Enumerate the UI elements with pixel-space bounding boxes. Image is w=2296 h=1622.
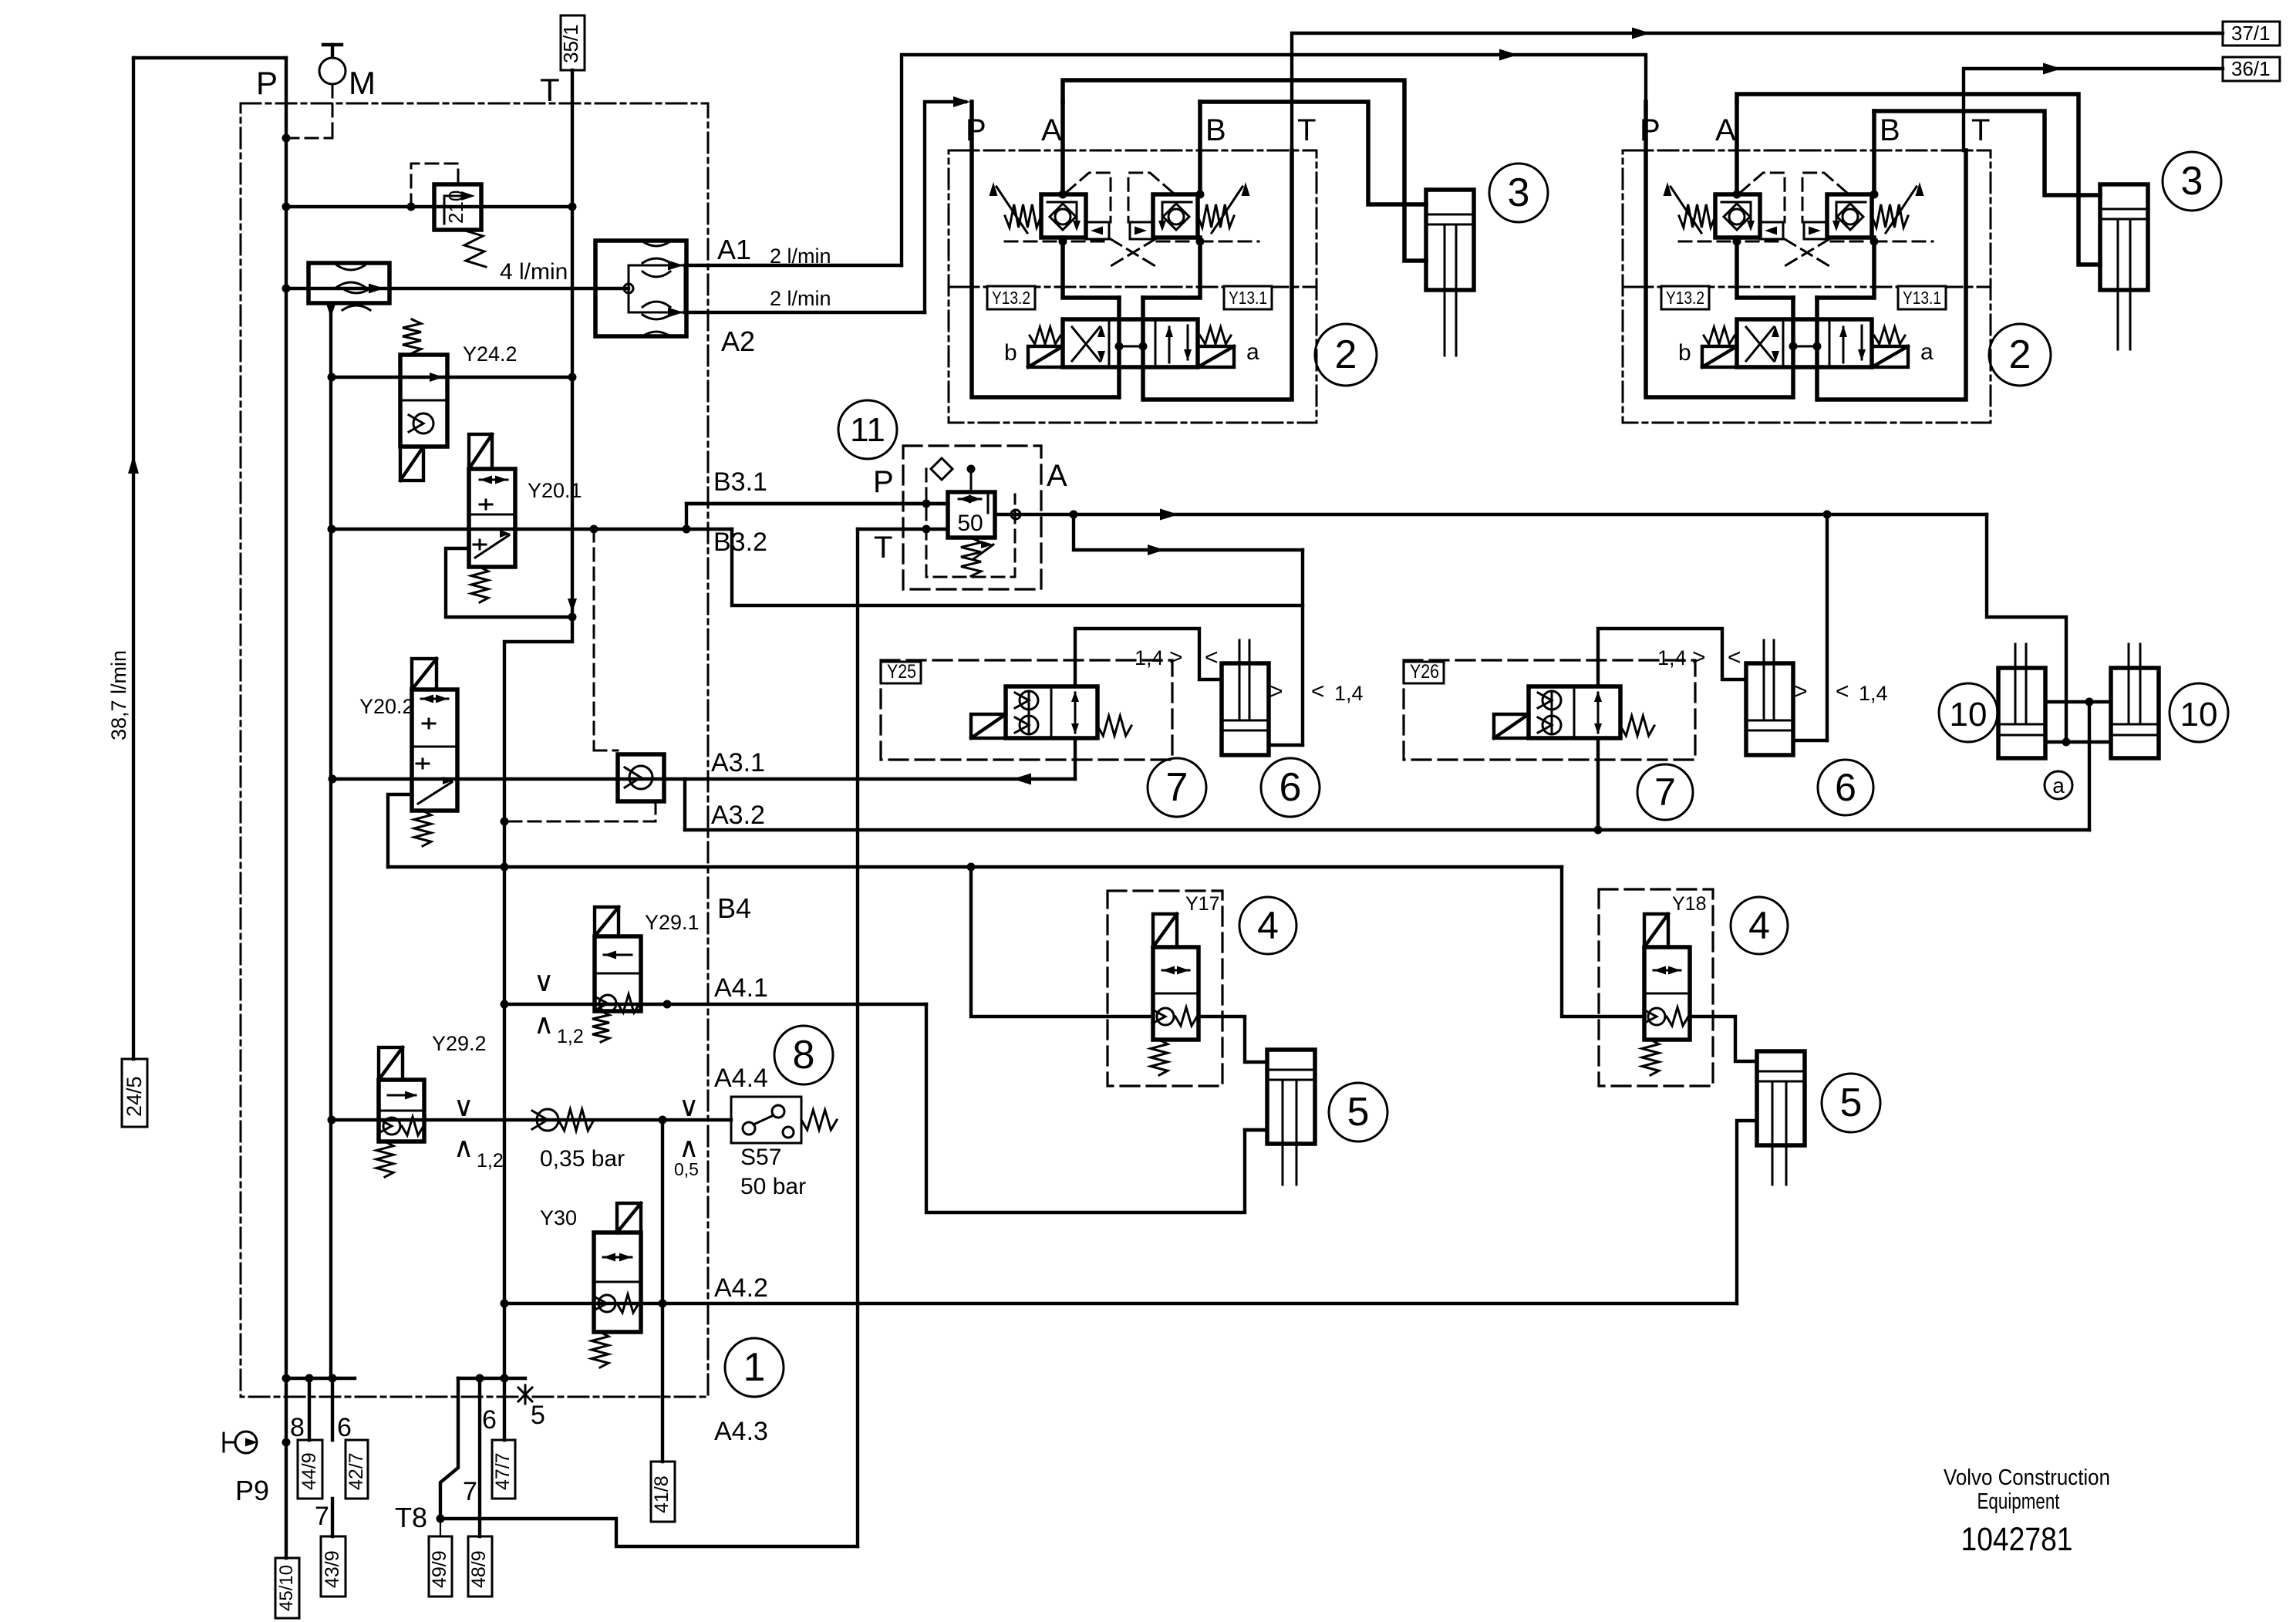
counterbalance left check (right) bbox=[1729, 209, 1745, 224]
wire cylinder 6 bottom port bbox=[1269, 744, 1303, 747]
pilot cross dash (right) bbox=[1785, 239, 1829, 266]
counterbalance left check (left) bbox=[1055, 209, 1070, 224]
svg-text:50 bar: 50 bar bbox=[740, 1174, 806, 1199]
Y25 dashed enclosure bbox=[881, 660, 1172, 760]
flow divider 2 outer body bbox=[595, 241, 686, 336]
valve Y29.2 check spring bbox=[383, 1118, 400, 1135]
svg-text:10: 10 bbox=[2180, 696, 2218, 733]
wire T left group to 37/1 bbox=[1292, 33, 2223, 150]
wire drop 42/7 bbox=[331, 1378, 334, 1440]
svg-text:1,2: 1,2 bbox=[557, 1026, 584, 1047]
svg-text:Y24.2: Y24.2 bbox=[463, 342, 518, 366]
valve Y29.1 body bbox=[595, 936, 641, 1011]
node box 43/9 bbox=[321, 1536, 346, 1597]
svg-text:44/9: 44/9 bbox=[298, 1452, 320, 1490]
wire Y26 riser down bbox=[1596, 738, 1600, 830]
wire 4 l/min line bbox=[286, 287, 629, 290]
svg-text:42/7: 42/7 bbox=[346, 1452, 367, 1490]
svg-text:A: A bbox=[1041, 113, 1062, 147]
item circle 10 left bbox=[1939, 683, 1998, 742]
pilot dash check bottom bbox=[504, 801, 656, 821]
svg-text:Y20.2: Y20.2 bbox=[359, 695, 414, 718]
wire A output line bbox=[995, 513, 1987, 516]
svg-text:45/10: 45/10 bbox=[276, 1565, 297, 1611]
valve Y26 solenoid bbox=[1494, 714, 1529, 738]
valve Y17 arrows bbox=[1162, 966, 1175, 975]
svg-text:T8: T8 bbox=[395, 1502, 427, 1533]
Y17 dashed enclosure bbox=[1108, 891, 1222, 1086]
valve Y17 body bbox=[1153, 947, 1199, 1040]
counterbalance right springs (right) bbox=[1872, 204, 1908, 228]
counterbalance left pilot box (right) bbox=[1760, 222, 1783, 239]
svg-text:T: T bbox=[1971, 113, 1990, 147]
wire B4 drop to Y18 bbox=[1562, 867, 1644, 1017]
wire T to drain jog bbox=[504, 617, 572, 1378]
valve Y30 check spring bbox=[598, 1295, 615, 1312]
counterbalance left pilot box (left) bbox=[1086, 222, 1109, 239]
wire A2 line bbox=[685, 311, 925, 314]
svg-text:Y29.1: Y29.1 bbox=[645, 911, 700, 934]
label Y13.1 box (right) bbox=[1898, 286, 1946, 309]
svg-text:Y20.1: Y20.1 bbox=[528, 479, 582, 502]
label Y13.1 box (left) bbox=[1224, 286, 1272, 309]
cylinder 6 body bbox=[1222, 663, 1269, 755]
wire T right group to 36/1 bbox=[1964, 69, 2223, 150]
svg-text:B: B bbox=[1205, 113, 1226, 147]
relief valve 210 pilot dash bbox=[411, 164, 458, 207]
wire left collector bbox=[286, 1377, 355, 1380]
node box 47/7 bbox=[492, 1440, 515, 1499]
valve Y24.2 check bbox=[413, 413, 433, 433]
pilot cross dash (left) bbox=[1111, 239, 1155, 266]
solenoid a (left) bbox=[1198, 346, 1234, 367]
wire group B mid (right) bbox=[1817, 238, 1874, 298]
item circle 4 right bbox=[1731, 897, 1788, 954]
svg-text:47/7: 47/7 bbox=[492, 1452, 514, 1490]
svg-text:10: 10 bbox=[1950, 696, 1988, 733]
node T8 dot bbox=[437, 1515, 445, 1523]
item circle 3 left bbox=[1489, 164, 1548, 222]
svg-text:a: a bbox=[1920, 339, 1934, 365]
svg-text:37/1: 37/1 bbox=[2231, 22, 2271, 45]
valve Y17 spring bbox=[1151, 1040, 1168, 1075]
svg-text:Y26: Y26 bbox=[1410, 661, 1439, 683]
item circle 6 right bbox=[1818, 760, 1873, 815]
svg-text:Y30: Y30 bbox=[540, 1206, 577, 1229]
item circle 2 (right) bbox=[1989, 324, 2051, 386]
svg-text:Y13.2: Y13.2 bbox=[1666, 288, 1704, 308]
label Y26 box bbox=[1404, 662, 1444, 683]
pilot dash line B3.2 to check bbox=[593, 529, 595, 750]
wire A2 to P left group bbox=[925, 102, 966, 312]
cylinder 10 left bbox=[1998, 668, 2045, 758]
svg-text:<: < bbox=[1728, 645, 1741, 670]
svg-text:6: 6 bbox=[1835, 766, 1856, 809]
manifold block 1 dash-dot border bbox=[241, 103, 708, 1397]
valve Y20.1 arrows bbox=[480, 476, 492, 484]
svg-text:41/8: 41/8 bbox=[651, 1475, 673, 1513]
valve Y30 arrows bbox=[603, 1253, 615, 1262]
label Y13.2 box (right) bbox=[1661, 286, 1709, 309]
valve Y20.2 solenoid bbox=[412, 659, 437, 690]
svg-text:a: a bbox=[2052, 774, 2065, 798]
valve Y20.1 spring bbox=[471, 567, 488, 602]
svg-text:50: 50 bbox=[957, 511, 983, 536]
wire A3.1 line bbox=[332, 777, 1075, 781]
svg-text:7: 7 bbox=[1166, 765, 1188, 810]
wire pump supply riser 38,7 l/min bbox=[132, 58, 135, 1059]
item circle a bbox=[2045, 771, 2072, 799]
wire B3.1 line bbox=[686, 504, 948, 529]
svg-text:P: P bbox=[256, 65, 278, 101]
wire A to cylinder 3 right bbox=[1737, 94, 2100, 265]
wire main pressure line top bbox=[133, 56, 286, 59]
counterbalance right internal (right) bbox=[1836, 202, 1866, 224]
svg-text:2 l/min: 2 l/min bbox=[770, 287, 831, 310]
valve right section arrows (left) bbox=[1168, 327, 1171, 363]
svg-text:A: A bbox=[1715, 113, 1736, 147]
wire Y17 out to cylinder 5 bbox=[1199, 1017, 1267, 1062]
svg-text:3: 3 bbox=[2181, 159, 2203, 204]
wire Y26 riser up bbox=[1598, 629, 1746, 686]
wire cylinder 6 riser bbox=[1301, 550, 1304, 745]
wire mid collector bbox=[458, 1377, 525, 1380]
valve Y20.2 spring bbox=[414, 811, 431, 846]
svg-text:a: a bbox=[1246, 339, 1259, 365]
wire T8 return long bbox=[440, 1519, 858, 1546]
solenoid b (right) bbox=[1702, 346, 1737, 367]
svg-text:8: 8 bbox=[290, 1413, 305, 1442]
svg-text:A2: A2 bbox=[721, 325, 755, 357]
wire A feed to item 10 bbox=[1987, 514, 2066, 742]
svg-text:4: 4 bbox=[1257, 904, 1279, 947]
flow divider throttles bbox=[337, 265, 365, 270]
valve Y17 solenoid bbox=[1153, 914, 1177, 947]
svg-text:>: > bbox=[1692, 645, 1706, 670]
wire T return vertical bbox=[571, 70, 574, 617]
counterbalance valve left body (right) bbox=[1715, 194, 1760, 238]
valve Y24.2 body bbox=[400, 355, 447, 447]
valve Y29.1 solenoid bbox=[595, 907, 619, 936]
wire Y25 riser down bbox=[1074, 738, 1077, 779]
valve Y29.2 arrow bbox=[388, 1094, 416, 1097]
svg-text:38,7 l/min: 38,7 l/min bbox=[107, 650, 130, 740]
valve Y18 solenoid bbox=[1644, 914, 1668, 947]
svg-text:P: P bbox=[873, 465, 894, 499]
svg-text:Y13.1: Y13.1 bbox=[1229, 288, 1267, 308]
valve Y29.2 solenoid bbox=[379, 1047, 403, 1080]
valve Y20.1 solenoid bbox=[469, 434, 492, 469]
cylinder 3 left body bbox=[1426, 190, 1474, 290]
wire drop 48/9 bbox=[478, 1378, 481, 1536]
svg-text:0,35 bar: 0,35 bar bbox=[540, 1146, 625, 1172]
item 11 outer box bbox=[903, 446, 1041, 589]
group internal dash divider (left) bbox=[949, 286, 1317, 288]
wire item11 P line bbox=[686, 502, 948, 505]
reducing valve 50 spring bbox=[961, 538, 981, 576]
svg-text:1,4: 1,4 bbox=[1657, 646, 1687, 669]
svg-text:7: 7 bbox=[1654, 771, 1676, 814]
wire group T vertical (right) bbox=[1819, 150, 1966, 400]
solenoid a (right) bbox=[1872, 346, 1908, 367]
valve Y26 flowpath bbox=[1597, 693, 1600, 733]
wire valve stem T (right) bbox=[1815, 298, 1819, 400]
node box 42/7 bbox=[346, 1440, 368, 1499]
svg-text:11: 11 bbox=[850, 411, 885, 449]
counterbalance right springs (left) bbox=[1198, 204, 1234, 228]
counterbalance right check (right) bbox=[1843, 209, 1858, 224]
valve Y25 checks bbox=[1020, 691, 1038, 710]
wire item10 upper link bbox=[2045, 700, 2111, 703]
pump source P9 bbox=[235, 1431, 257, 1453]
valve Y25 solenoid bbox=[971, 714, 1006, 738]
valve center section (right) bbox=[1789, 342, 1798, 351]
valve Y20.2 arrows bbox=[421, 695, 433, 703]
svg-text:36/1: 36/1 bbox=[2231, 57, 2271, 80]
node box 36/1 bbox=[2223, 57, 2280, 81]
counterbalance right pilot box (left) bbox=[1130, 222, 1153, 239]
wire drop 44/9 bbox=[308, 1378, 311, 1440]
svg-text:∨: ∨ bbox=[534, 966, 554, 997]
solenoid a spring (left) bbox=[1200, 327, 1231, 344]
item circle 10 right bbox=[2170, 683, 2228, 742]
wire group A line (left) bbox=[1060, 102, 1065, 194]
valve Y25 spring bbox=[1097, 716, 1131, 736]
valve Y24.2 spring bbox=[403, 319, 421, 353]
valve right section arrows (right) bbox=[1843, 327, 1845, 363]
svg-text:A4.4: A4.4 bbox=[714, 1064, 768, 1093]
svg-text:5: 5 bbox=[1840, 1081, 1863, 1125]
group internal dash divider (right) bbox=[1623, 286, 1991, 288]
svg-text:48/9: 48/9 bbox=[468, 1550, 490, 1588]
wire relief line bbox=[286, 205, 572, 208]
wire item11 T line bbox=[858, 528, 948, 531]
valve Y17 check spring bbox=[1157, 1008, 1174, 1025]
svg-text:P: P bbox=[966, 113, 986, 147]
svg-text:6: 6 bbox=[1279, 765, 1302, 810]
cylinder 6 right body bbox=[1746, 663, 1793, 755]
svg-text:A4.3: A4.3 bbox=[714, 1417, 768, 1446]
counterbalance right check (left) bbox=[1168, 209, 1184, 224]
Y26 dashed enclosure bbox=[1404, 660, 1695, 760]
svg-text:Equipment: Equipment bbox=[1977, 1489, 2060, 1514]
item circle 3 right bbox=[2163, 152, 2221, 211]
svg-text:Y13.2: Y13.2 bbox=[992, 288, 1030, 308]
svg-text:A4.2: A4.2 bbox=[714, 1273, 768, 1303]
svg-text:24/5: 24/5 bbox=[123, 1076, 146, 1117]
wire A4.1 to cylinder 5 bbox=[926, 1004, 1267, 1212]
counterbalance left internal (left) bbox=[1047, 202, 1077, 224]
wire B to cylinder 3 left bbox=[1200, 102, 1426, 204]
svg-text:<: < bbox=[1836, 679, 1849, 704]
wire Y25 riser up bbox=[1075, 629, 1222, 686]
wire M dashed connection bbox=[332, 85, 334, 138]
valve Y20.2 body bbox=[412, 690, 457, 811]
svg-text:7: 7 bbox=[463, 1477, 477, 1506]
svg-text:2 l/min: 2 l/min bbox=[770, 244, 831, 268]
svg-text:1: 1 bbox=[743, 1345, 766, 1390]
group 2 dash-dot enclosure (right) bbox=[1623, 150, 1991, 423]
svg-text:A3.1: A3.1 bbox=[711, 748, 765, 777]
wire B4 line bbox=[388, 865, 1562, 868]
counterbalance right pilot dash (left) bbox=[1128, 173, 1173, 222]
wire B3.2 step line bbox=[732, 529, 1303, 605]
wire valve stem T (left) bbox=[1141, 298, 1145, 400]
valve Y29.1 spring bbox=[592, 1011, 609, 1042]
svg-text:>: > bbox=[1794, 679, 1808, 704]
counterbalance right pilot dash (right) bbox=[1802, 173, 1847, 222]
wire group B mid (left) bbox=[1143, 238, 1200, 298]
wire drop 47/7 bbox=[503, 1378, 506, 1440]
counterbalance left springs (left) bbox=[1005, 204, 1041, 228]
wire divider branch down bbox=[329, 303, 332, 1378]
svg-text:1,4: 1,4 bbox=[1135, 646, 1164, 669]
item circle 8 bbox=[774, 1026, 833, 1084]
wire group A line (right) bbox=[1735, 102, 1739, 194]
wire T8 to 49/9 bbox=[440, 1519, 441, 1536]
valve center section (left) bbox=[1115, 342, 1124, 351]
svg-text:Y25: Y25 bbox=[887, 661, 916, 683]
wire S57 branch bbox=[661, 1120, 664, 1462]
counterbalance valve right body (left) bbox=[1153, 194, 1198, 238]
wire Y20.1 bypass loop bbox=[446, 548, 572, 617]
svg-text:<: < bbox=[1311, 679, 1325, 704]
wire A to cylinder 3 left bbox=[1063, 80, 1426, 261]
label Y13.2 box (left) bbox=[987, 286, 1035, 309]
wire valve stem P (right) bbox=[1791, 298, 1795, 397]
wire group P vertical (left) bbox=[972, 102, 1118, 397]
pilot dash bottom (right) bbox=[1679, 241, 1737, 243]
valve Y25 flowpath bbox=[1074, 693, 1077, 733]
wire item10 lower link bbox=[2045, 740, 2111, 744]
pilot dash bottom (left) bbox=[1005, 241, 1063, 243]
valve Y20.1 body bbox=[469, 469, 515, 567]
svg-text:A: A bbox=[1047, 459, 1067, 493]
svg-text:5: 5 bbox=[1347, 1090, 1370, 1135]
relief valve 210 body bbox=[434, 184, 481, 230]
svg-text:A4.1: A4.1 bbox=[714, 973, 768, 1003]
node dots counterbalance (left) bbox=[1059, 191, 1067, 199]
svg-text:B3.2: B3.2 bbox=[713, 528, 767, 557]
valve Y29.1 arrow bbox=[604, 954, 632, 956]
valve Y26 body bbox=[1529, 686, 1620, 738]
wire cylinder 5R bottom to A4.2 bbox=[1737, 1121, 1757, 1303]
item circle 4 left bbox=[1239, 897, 1296, 954]
solenoid b spring (left) bbox=[1030, 327, 1060, 344]
valve Y30 body bbox=[594, 1233, 641, 1332]
wire A4.4 line bbox=[332, 1118, 731, 1121]
wire Y20.2 bypass to B4 bbox=[388, 794, 412, 867]
svg-text:P: P bbox=[1640, 113, 1660, 147]
item circle 5 right bbox=[1822, 1074, 1880, 1132]
item 11 circle bbox=[838, 400, 897, 459]
valve X section arrows (right) bbox=[1746, 327, 1774, 361]
wire arrow up on supply riser bbox=[128, 455, 139, 474]
node box 49/9 bbox=[429, 1536, 452, 1597]
valve Y26 spring bbox=[1620, 716, 1654, 736]
svg-text:T: T bbox=[1297, 113, 1316, 147]
wire P to 45/10 bbox=[285, 1378, 288, 1558]
svg-text:6: 6 bbox=[337, 1413, 352, 1442]
svg-text:∧: ∧ bbox=[453, 1131, 474, 1163]
svg-text:S57: S57 bbox=[740, 1145, 781, 1170]
valve Y26 checks bbox=[1542, 691, 1561, 710]
wire cylinder 6R bottom port bbox=[1793, 739, 1827, 742]
wire T8 jog bbox=[440, 1378, 458, 1519]
counterbalance right pilot box (right) bbox=[1804, 222, 1827, 239]
svg-text:B3.1: B3.1 bbox=[713, 467, 767, 497]
svg-text:1,2: 1,2 bbox=[477, 1150, 504, 1172]
svg-text:35/1: 35/1 bbox=[559, 24, 582, 63]
svg-text:∨: ∨ bbox=[679, 1091, 699, 1122]
wire item10 drain riser bbox=[2088, 702, 2091, 830]
wire A4.1 line bbox=[504, 1003, 926, 1006]
solenoid b spring (right) bbox=[1704, 327, 1735, 344]
check 0,35 bar bbox=[537, 1109, 558, 1131]
valve Y24.2 flow arrow bbox=[430, 373, 443, 382]
svg-text:Y29.2: Y29.2 bbox=[432, 1032, 487, 1055]
wire Y24.2 line bbox=[332, 376, 572, 379]
wire A4.2 line bbox=[504, 1302, 1737, 1305]
svg-text:1,4: 1,4 bbox=[1334, 682, 1364, 705]
node box 37/1 bbox=[2223, 22, 2280, 46]
wire group B line (right) bbox=[1872, 111, 1876, 194]
wire A3.2 step bbox=[683, 779, 686, 830]
svg-text:4 l/min: 4 l/min bbox=[500, 259, 568, 285]
wire A3.2 line bbox=[685, 828, 2089, 831]
svg-text:P9: P9 bbox=[235, 1475, 269, 1506]
svg-text:B: B bbox=[1880, 113, 1900, 147]
counterbalance left springs (right) bbox=[1679, 204, 1715, 228]
solenoid valve Y13 body (right) bbox=[1737, 319, 1872, 367]
svg-text:M: M bbox=[349, 65, 376, 101]
wire 42/7 to 43/9 bbox=[331, 1499, 334, 1536]
svg-text:49/9: 49/9 bbox=[429, 1550, 450, 1588]
counterbalance left pilot dash (right) bbox=[1740, 173, 1785, 222]
svg-text:>: > bbox=[1169, 645, 1183, 670]
gauge M check symbol bbox=[319, 58, 346, 84]
wire cylinder 6R riser bbox=[1826, 514, 1829, 740]
cylinder 5 right body bbox=[1757, 1051, 1805, 1145]
svg-text:>: > bbox=[1269, 679, 1283, 704]
svg-text:Y18: Y18 bbox=[1672, 893, 1706, 915]
wire group T vertical (left) bbox=[1145, 150, 1292, 400]
wire B4 drop to Y17 bbox=[971, 867, 1153, 1017]
svg-text:2: 2 bbox=[2009, 332, 2031, 377]
item circle 7 left bbox=[1148, 758, 1206, 817]
counterbalance right internal (left) bbox=[1162, 202, 1192, 224]
port marker 5 bbox=[518, 1388, 532, 1401]
svg-text:8: 8 bbox=[793, 1033, 815, 1077]
wire Y20.1 line B3.2 feed bbox=[332, 528, 732, 531]
wire Y18 out to cylinder 5R bbox=[1690, 1017, 1757, 1061]
wire B to cylinder 3 right bbox=[1874, 111, 2100, 195]
node box 44/9 bbox=[298, 1440, 322, 1499]
check valve A3.1 body bbox=[618, 754, 664, 801]
wire group P vertical (right) bbox=[1646, 102, 1792, 397]
svg-text:T: T bbox=[874, 531, 892, 565]
item circle 6 left bbox=[1261, 758, 1320, 817]
svg-text:6: 6 bbox=[482, 1405, 497, 1435]
wire P line vertical bbox=[285, 58, 288, 1378]
node box 24/5 bbox=[122, 1059, 147, 1127]
valve Y18 body bbox=[1644, 947, 1690, 1040]
svg-text:A1: A1 bbox=[717, 234, 751, 265]
svg-text:5: 5 bbox=[531, 1401, 545, 1430]
wire group A mid (left) bbox=[1063, 238, 1119, 298]
svg-text:43/9: 43/9 bbox=[322, 1550, 343, 1588]
valve Y18 arrows bbox=[1654, 966, 1666, 975]
